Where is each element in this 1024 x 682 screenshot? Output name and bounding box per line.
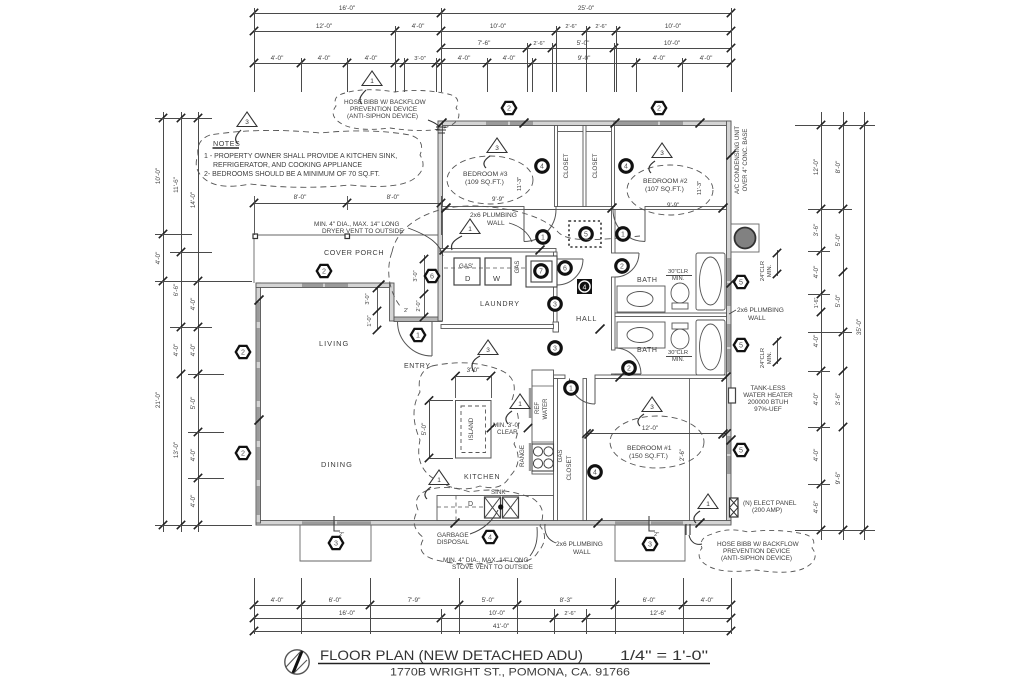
- hose bibb leader top: [428, 120, 438, 130]
- svg-text:TANK-LESS: TANK-LESS: [750, 385, 785, 392]
- svg-text:12'-6": 12'-6": [650, 610, 666, 617]
- svg-text:BEDROOM #2: BEDROOM #2: [643, 178, 688, 185]
- right dimension column 3 (35-0 overall): [856, 112, 868, 540]
- laundry door: [557, 259, 583, 285]
- svg-text:2- BEDROOMS SHOULD BE A MINIMU: 2- BEDROOMS SHOULD BE A MINIMUM OF 70 SQ…: [204, 171, 380, 178]
- dryer D: [454, 258, 480, 285]
- svg-text:21'-0": 21'-0": [155, 392, 162, 408]
- exterior wall bottom: [256, 521, 731, 526]
- kitchen cloud: [414, 363, 519, 489]
- svg-text:4: 4: [624, 164, 628, 171]
- exterior wall entry (door opening): [394, 317, 442, 322]
- svg-text:6'-0": 6'-0": [329, 597, 342, 604]
- svg-text:4'-0": 4'-0": [190, 298, 197, 311]
- svg-text:2': 2': [404, 308, 408, 314]
- svg-text:HOSE BIBB W/ BACKFLOW: HOSE BIBB W/ BACKFLOW: [717, 541, 800, 548]
- svg-text:WALL: WALL: [748, 315, 766, 322]
- svg-text:24"CLR: 24"CLR: [760, 261, 766, 281]
- svg-text:11'-6": 11'-6": [173, 177, 180, 193]
- bedroom #3 door: [524, 210, 556, 242]
- exterior wall entry step: [390, 283, 395, 321]
- top dimension tier 3: [437, 40, 735, 52]
- svg-text:3: 3: [495, 145, 499, 152]
- svg-text:3: 3: [553, 346, 557, 353]
- svg-text:1: 1: [437, 477, 441, 484]
- windows left wall (living/dining): [257, 302, 260, 322]
- svg-text:2: 2: [657, 104, 661, 113]
- svg-text:CLOSET: CLOSET: [592, 153, 599, 178]
- svg-text:PREVENTION DEVICE: PREVENTION DEVICE: [350, 106, 417, 113]
- hex keynote 1 entry: [411, 329, 425, 341]
- svg-text:D: D: [468, 501, 473, 508]
- bath1 toilet: [671, 283, 689, 303]
- attic access dashed rect with keynote 5: [569, 221, 601, 247]
- svg-text:10'-0": 10'-0": [665, 23, 681, 30]
- electrical panel symbol: [730, 498, 739, 517]
- bath1 vanity: [617, 286, 665, 312]
- hex keynote 5 right wall 1: [734, 276, 748, 288]
- svg-text:3: 3: [486, 347, 490, 354]
- svg-text:5'-0": 5'-0": [577, 40, 590, 47]
- svg-text:D: D: [465, 274, 471, 283]
- svg-text:3: 3: [245, 119, 249, 126]
- circle keynote 4 bedroom2: [620, 160, 633, 173]
- triangle rev 1 hose bibb bottom: [698, 494, 718, 509]
- svg-text:2": 2": [654, 532, 659, 538]
- circle keynote 3 hall upper: [549, 298, 562, 311]
- bedroom #1 door: [570, 379, 596, 405]
- svg-text:1/4" = 1'-0": 1/4" = 1'-0": [620, 647, 708, 663]
- svg-text:(ANTI-SIPHON DEVICE): (ANTI-SIPHON DEVICE): [721, 555, 792, 562]
- svg-text:(109 SQ.FT.): (109 SQ.FT.): [465, 179, 504, 186]
- hex keynote 2 top wall left: [502, 102, 516, 114]
- exterior wall upper-left (laundry west): [438, 121, 443, 321]
- bath 1 door: [615, 253, 639, 277]
- svg-text:WALL: WALL: [487, 220, 505, 227]
- svg-text:2: 2: [507, 104, 511, 113]
- hex keynote 2 left wall upper: [236, 346, 250, 358]
- svg-text:1'-6": 1'-6": [814, 298, 820, 309]
- svg-text:2x6 PLUMBING: 2x6 PLUMBING: [470, 212, 517, 219]
- svg-text:30"CLR: 30"CLR: [668, 269, 688, 275]
- svg-text:4'-0": 4'-0": [271, 55, 284, 62]
- svg-text:3: 3: [660, 150, 664, 157]
- svg-text:4'-0": 4'-0": [271, 597, 284, 604]
- svg-text:4'-0": 4'-0": [173, 344, 180, 357]
- bath2 vanity: [617, 322, 665, 348]
- window right wall bath1: [727, 258, 730, 281]
- svg-text:4'-0": 4'-0": [318, 55, 331, 62]
- svg-text:2'-6": 2'-6": [564, 611, 575, 617]
- window right wall bedroom #1: [727, 436, 730, 454]
- svg-text:1 - PROPERTY OWNER SHALL PROVI: 1 - PROPERTY OWNER SHALL PROVIDE A KITCH…: [204, 153, 397, 160]
- interior wall hall/bath vertical: [612, 210, 616, 254]
- laundry wall T-cap: [553, 322, 559, 332]
- sink cloud: [414, 487, 544, 564]
- stoop bottom-right: [615, 525, 685, 561]
- kitchen bottom counter: [437, 496, 554, 521]
- svg-text:4'-0": 4'-0": [813, 393, 820, 406]
- svg-text:COVER PORCH: COVER PORCH: [324, 248, 384, 257]
- circle keynote 2 bath2: [623, 362, 636, 375]
- interior wall bath divider: [615, 313, 727, 317]
- svg-text:1: 1: [621, 232, 625, 239]
- svg-text:3'-0": 3'-0": [365, 293, 371, 304]
- A/C condensing unit: [731, 224, 759, 252]
- bedroom3 cloud: [447, 156, 533, 204]
- svg-text:2: 2: [627, 366, 631, 373]
- svg-text:1: 1: [706, 501, 710, 508]
- circle keynote 4 bedroom3: [536, 160, 549, 173]
- svg-text:4'-0": 4'-0": [813, 335, 820, 348]
- svg-text:KITCHEN: KITCHEN: [464, 474, 500, 481]
- svg-text:MIN. 4" DIA., MAX. 14" LONG: MIN. 4" DIA., MAX. 14" LONG: [314, 221, 400, 228]
- svg-text:3: 3: [648, 540, 652, 549]
- kitchen east counter: [532, 370, 554, 474]
- svg-text:2: 2: [241, 348, 245, 357]
- closet wall 2: [583, 126, 586, 207]
- top dimension tier 1 (16-0 / 25-0): [250, 5, 735, 17]
- svg-text:4: 4: [540, 164, 544, 171]
- circle keynote 3 hall lower: [549, 342, 562, 355]
- top dimension tier 2: [250, 23, 735, 35]
- svg-text:16'-0": 16'-0": [339, 5, 355, 12]
- hose bibb note top: [333, 90, 459, 131]
- exterior wall living front: [256, 283, 392, 288]
- island dim 5-0: [421, 396, 453, 462]
- bath1 tub: [696, 253, 725, 310]
- svg-text:MIN. 3'-0": MIN. 3'-0": [493, 422, 520, 429]
- closet shelf line: [558, 131, 611, 133]
- svg-text:4'-0": 4'-0": [458, 55, 471, 62]
- svg-text:WALL: WALL: [573, 549, 591, 556]
- right dimension column 2: [835, 112, 847, 540]
- svg-text:6: 6: [563, 266, 567, 273]
- svg-text:4'-0": 4'-0": [190, 344, 197, 357]
- svg-text:25'-0": 25'-0": [578, 5, 594, 12]
- bottom dimension tier 2: [250, 610, 735, 622]
- exterior wall right: [727, 121, 732, 523]
- bedroom #2 door: [613, 210, 645, 242]
- svg-text:8'-0": 8'-0": [835, 161, 842, 174]
- svg-text:7'-9": 7'-9": [408, 597, 421, 604]
- svg-text:GAS': GAS': [459, 263, 473, 270]
- cover porch outline: [254, 235, 438, 283]
- hex keynote 6 laundry: [425, 270, 439, 282]
- svg-text:4'-6": 4'-6": [813, 501, 820, 514]
- svg-text:4'-0": 4'-0": [365, 55, 378, 62]
- kitchen island: [456, 401, 492, 459]
- svg-text:9'-0": 9'-0": [578, 55, 591, 62]
- triangle rev 3 bedroom1: [642, 397, 662, 412]
- svg-text:6'-6": 6'-6": [173, 284, 180, 297]
- svg-text:12'-0": 12'-0": [813, 159, 820, 175]
- svg-text:GAS: GAS: [515, 261, 521, 274]
- hose bibb symbol top: [436, 127, 446, 133]
- sliding door bottom wall right stoop: [615, 521, 649, 524]
- svg-text:41'-0": 41'-0": [493, 623, 509, 630]
- svg-text:8'-3": 8'-3": [560, 597, 573, 604]
- triangle rev 1 plumbing left: [460, 219, 480, 234]
- svg-text:4'-0": 4'-0": [813, 266, 820, 279]
- svg-text:7'-6": 7'-6": [478, 40, 491, 47]
- svg-text:GARBAGE: GARBAGE: [437, 532, 469, 539]
- title logo circle: [285, 650, 309, 674]
- hex keynote 2 top wall right: [652, 102, 666, 114]
- svg-text:MIN.: MIN.: [672, 357, 685, 363]
- svg-text:4'-0": 4'-0": [190, 495, 197, 508]
- window top wall bedroom #3: [486, 122, 508, 125]
- svg-text:5: 5: [739, 446, 743, 455]
- circle keynote 6 hall: [559, 262, 572, 275]
- hex keynote 3 right stoop: [643, 538, 657, 550]
- svg-text:7: 7: [539, 269, 543, 276]
- island dim 3-0: [451, 367, 495, 398]
- svg-text:5'-0": 5'-0": [421, 423, 428, 436]
- svg-text:(150 SQ.FT.): (150 SQ.FT.): [629, 453, 668, 460]
- window top wall bedroom #2: [613, 122, 658, 125]
- top dimension tier 4: [250, 55, 735, 67]
- svg-text:W: W: [493, 274, 501, 283]
- svg-text:PREVENTION DEVICE: PREVENTION DEVICE: [723, 548, 790, 555]
- plumbing dashed cloud laundry: [392, 206, 640, 252]
- svg-text:HOSE BIBB W/ BACKFLOW: HOSE BIBB W/ BACKFLOW: [344, 99, 427, 106]
- svg-text:8'-0": 8'-0": [387, 194, 400, 201]
- window front wall 2: [325, 284, 348, 287]
- interior wall laundry bottom: [441, 325, 554, 329]
- svg-text:8'-0": 8'-0": [294, 194, 307, 201]
- svg-text:BATH: BATH: [637, 347, 658, 354]
- hex keynote 3 left stoop: [329, 537, 343, 549]
- svg-text:16'-0": 16'-0": [339, 610, 355, 617]
- circle keynote 4 bedroom1: [589, 466, 602, 479]
- svg-text:3: 3: [553, 302, 557, 309]
- triangle rev 3 bedroom2: [652, 143, 672, 158]
- svg-text:4: 4: [488, 533, 492, 542]
- svg-text:9'-9": 9'-9": [492, 196, 504, 203]
- svg-text:CLOSET: CLOSET: [563, 153, 570, 178]
- closet wall 3: [612, 126, 615, 207]
- stoop step mark right: [649, 516, 655, 531]
- svg-text:STOVE VENT TO OUTSIDE: STOVE VENT TO OUTSIDE: [452, 564, 533, 571]
- interior wall bedrooms/hall (horizontal): [442, 207, 524, 210]
- svg-text:5: 5: [739, 278, 743, 287]
- svg-text:MIN. 4" DIA., MAX. 14" LONG: MIN. 4" DIA., MAX. 14" LONG: [443, 557, 529, 564]
- svg-text:4'-0": 4'-0": [813, 449, 820, 462]
- svg-text:DINING: DINING: [321, 460, 353, 469]
- left dimension column 2: [173, 112, 185, 532]
- left dimension column 3 (innermost): [190, 112, 202, 532]
- svg-text:10'-0": 10'-0": [490, 23, 506, 30]
- svg-text:4'-0": 4'-0": [503, 55, 516, 62]
- exterior wall top: [438, 121, 731, 126]
- svg-text:24"CLR: 24"CLR: [760, 348, 766, 368]
- hose bibb symbol bottom: [686, 524, 690, 535]
- svg-text:3: 3: [650, 404, 654, 411]
- svg-text:4'-0": 4'-0": [412, 23, 425, 30]
- interior wall bedroom1 north: [554, 375, 566, 379]
- svg-text:35'-0": 35'-0": [856, 319, 863, 335]
- svg-text:ENTRY: ENTRY: [404, 363, 431, 370]
- svg-text:1: 1: [541, 235, 545, 242]
- circle keynote 1 hall right: [617, 228, 630, 241]
- svg-text:2'-6": 2'-6": [680, 449, 686, 461]
- svg-text:MIN.: MIN.: [767, 351, 773, 364]
- svg-text:5'-0": 5'-0": [835, 295, 842, 308]
- svg-text:2'-6": 2'-6": [565, 24, 576, 30]
- hex keynote 2 porch wall: [317, 265, 331, 277]
- bottom dimension extension lines: [255, 578, 732, 634]
- svg-text:97%-UEF: 97%-UEF: [754, 406, 782, 413]
- svg-text:2: 2: [241, 449, 245, 458]
- svg-text:(N) ELECT PANEL: (N) ELECT PANEL: [743, 500, 797, 507]
- svg-text:14'-0": 14'-0": [190, 192, 197, 208]
- svg-text:1: 1: [468, 226, 472, 233]
- triangle rev 1 kitchen left: [429, 470, 449, 485]
- closet wall 1: [555, 126, 558, 207]
- svg-text:2x6 PLUMBING: 2x6 PLUMBING: [556, 541, 603, 548]
- svg-text:BATH: BATH: [637, 277, 658, 284]
- svg-text:4: 4: [583, 284, 587, 291]
- left dimension column 1 (outermost): [155, 112, 167, 532]
- svg-text:10'-0": 10'-0": [155, 168, 162, 184]
- svg-text:5'-0": 5'-0": [482, 597, 495, 604]
- svg-text:REF: REF: [535, 402, 541, 414]
- gas dashed line laundry: [444, 267, 525, 269]
- svg-text:(107 SQ.FT.): (107 SQ.FT.): [645, 186, 684, 193]
- window right wall bath2: [727, 324, 730, 347]
- svg-text:MIN.: MIN.: [672, 276, 685, 282]
- entry door: [398, 322, 433, 357]
- svg-text:3'-0": 3'-0": [414, 56, 426, 62]
- sink double basin: [485, 497, 501, 518]
- bottom dimension tier 1: [250, 597, 735, 609]
- bedroom2 cloud: [627, 165, 713, 215]
- svg-text:4'-0": 4'-0": [700, 55, 713, 62]
- svg-text:1: 1: [416, 331, 420, 340]
- keynote 4 black square hall: [577, 279, 592, 294]
- bedroom1 dim 12-0: [582, 425, 730, 438]
- bedroom1 dim line vertical: [689, 379, 691, 521]
- svg-text:BEDROOM #3: BEDROOM #3: [463, 171, 508, 178]
- interior wall laundry/hall vertical: [554, 252, 558, 259]
- circle keynote 1 hall left: [537, 231, 550, 244]
- hose bibb note bottom: [699, 530, 815, 572]
- svg-text:6: 6: [430, 272, 434, 281]
- svg-text:REFRIGERATOR, AND COOKING APPL: REFRIGERATOR, AND COOKING APPLIANCE: [213, 162, 362, 169]
- svg-text:30"CLR: 30"CLR: [668, 350, 688, 356]
- window front wall 1: [302, 284, 323, 287]
- range: [532, 444, 554, 471]
- svg-text:3'-6": 3'-6": [813, 224, 820, 237]
- svg-text:12'-0": 12'-0": [316, 23, 332, 30]
- water heater square keynote 7: [526, 256, 557, 287]
- svg-text:1'-0": 1'-0": [367, 315, 373, 326]
- svg-text:13'-0": 13'-0": [173, 442, 180, 458]
- svg-text:LIVING: LIVING: [319, 339, 349, 348]
- svg-text:3'-6": 3'-6": [835, 393, 842, 406]
- svg-text:CLEAR: CLEAR: [497, 429, 518, 436]
- svg-text:WATER HEATER: WATER HEATER: [743, 392, 793, 399]
- wall corner tick marks: [255, 119, 736, 528]
- cover porch posts: [253, 234, 258, 239]
- svg-text:200000 BTUH: 200000 BTUH: [748, 399, 789, 406]
- svg-text:2'-6": 2'-6": [533, 41, 544, 47]
- svg-text:OVER 4" CONC. BASE: OVER 4" CONC. BASE: [743, 129, 749, 192]
- svg-text:4: 4: [593, 470, 597, 477]
- svg-text:DISPOSAL: DISPOSAL: [437, 539, 469, 546]
- triangle rev 3 kitchen top: [478, 340, 498, 355]
- exterior wall left: [256, 283, 261, 523]
- svg-text:11'-3": 11'-3": [517, 177, 523, 191]
- tankless water heater symbol: [729, 388, 736, 403]
- bedroom1 cloud: [610, 416, 704, 468]
- svg-text:2'-6": 2'-6": [595, 24, 606, 30]
- svg-text:11'-3": 11'-3": [697, 181, 703, 195]
- svg-text:CLOSET: CLOSET: [566, 455, 573, 480]
- triangle rev 1 ref: [510, 394, 530, 409]
- svg-text:6'-0": 6'-0": [643, 597, 656, 604]
- svg-text:(200 AMP): (200 AMP): [752, 507, 782, 514]
- svg-text:3: 3: [334, 539, 338, 548]
- svg-text:4'-0": 4'-0": [653, 55, 666, 62]
- svg-text:(ANTI-SIPHON DEVICE): (ANTI-SIPHON DEVICE): [347, 113, 418, 120]
- entry small dims right: [404, 255, 428, 321]
- right dimension connector lines: [795, 126, 875, 531]
- svg-text:4'-0": 4'-0": [701, 597, 714, 604]
- svg-text:WATER: WATER: [543, 398, 549, 420]
- svg-text:5: 5: [584, 232, 588, 239]
- svg-text:1770B WRIGHT ST., POMONA, CA.: 1770B WRIGHT ST., POMONA, CA. 91766: [390, 667, 630, 679]
- svg-text:9'-9": 9'-9": [667, 202, 679, 209]
- svg-text:A/C CONDENSING UNIT: A/C CONDENSING UNIT: [735, 126, 741, 194]
- svg-text:3'-0": 3'-0": [413, 270, 419, 281]
- svg-text:4'-0": 4'-0": [155, 252, 162, 265]
- left dimension connector lines: [155, 119, 252, 526]
- bath2 tub: [696, 320, 725, 375]
- stoop step mark left: [334, 516, 340, 531]
- hex keynote 4 garbage disposal: [483, 531, 497, 543]
- svg-text:ISLAND: ISLAND: [468, 417, 475, 440]
- svg-text:2'-0": 2'-0": [416, 300, 422, 311]
- svg-text:1: 1: [370, 78, 374, 85]
- stoop bottom-left: [300, 525, 371, 561]
- svg-text:5'-0": 5'-0": [190, 397, 197, 410]
- bottom dimension tier 3 (41-0 overall): [250, 623, 735, 635]
- svg-text:FLOOR PLAN (NEW DETACHED ADU): FLOOR PLAN (NEW DETACHED ADU): [320, 647, 583, 663]
- svg-text:HALL: HALL: [576, 314, 597, 323]
- svg-text:5: 5: [739, 341, 743, 350]
- svg-text:GAS: GAS: [558, 450, 564, 463]
- svg-text:LAUNDRY: LAUNDRY: [480, 299, 520, 308]
- svg-text:BEDROOM #1: BEDROOM #1: [627, 445, 672, 452]
- triangle rev 3 bedroom3: [487, 138, 507, 153]
- notes cloud: [196, 130, 423, 187]
- bath2 toilet: [671, 329, 689, 349]
- range hatch strips: [529, 388, 532, 418]
- entry small dims left: [365, 284, 381, 334]
- hex keynote 2 left wall lower: [236, 447, 250, 459]
- hex keynote 5 right wall 3: [734, 444, 748, 456]
- svg-text:1: 1: [569, 386, 573, 393]
- svg-text:5'-0": 5'-0": [835, 234, 842, 247]
- svg-text:2x6 PLUMBING: 2x6 PLUMBING: [737, 307, 784, 314]
- svg-text:4'-0": 4'-0": [190, 449, 197, 462]
- svg-text:RANGE: RANGE: [519, 445, 526, 467]
- svg-text:2: 2: [322, 267, 326, 276]
- interior wall kitchen east: [554, 379, 558, 521]
- svg-text:MIN.: MIN.: [767, 264, 773, 277]
